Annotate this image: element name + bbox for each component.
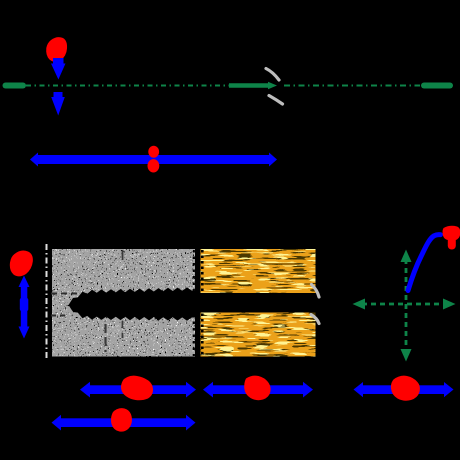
arrow: blue vertical double arrow (craze thickness) [19, 276, 30, 339]
label lc (red blob) [244, 376, 270, 401]
node C: green thick right segment [421, 83, 453, 89]
plot axis: green dashed horizontal, double-headed [362, 303, 446, 306]
label sigma(delta) (red blob at top of curve) [443, 226, 460, 250]
bulk polymer upper block (orange streaked) [201, 249, 316, 293]
break symbol lower crescent [269, 96, 283, 105]
texture: black dotted column at orange left edges [201, 250, 204, 292]
node A: thick left segment of far-field line [3, 83, 27, 89]
label h (red blob mid-left) [10, 250, 33, 276]
label a (red blob) [111, 408, 132, 432]
arrowhead up [401, 250, 412, 263]
texture: dark dotted column at gray right edge [193, 250, 195, 356]
arrow: long blue horizontal double arrow under line [30, 153, 277, 167]
arrow: blue double arrow bottom row (craze length a) [52, 415, 196, 431]
wire: dark dashed crack-plane marks left of tip [51, 293, 79, 295]
arrow: blue down arrow above line [51, 58, 66, 80]
label delta-c (red blob) [391, 376, 420, 401]
arrowhead down [401, 349, 412, 362]
label delta (red 8-shaped blob on blue arrow) [148, 146, 159, 158]
node B: green bold arrow before break symbol [229, 82, 277, 89]
arrow: blue double arrow under plot (row1 C) [354, 382, 454, 397]
break symbol lower-right crescent [311, 315, 319, 324]
break symbol upper crescent [266, 69, 279, 81]
texture streak 3 [122, 250, 124, 260]
arrowhead left [353, 299, 366, 310]
arrow: blue double arrow under craze block (row1 A) [80, 382, 196, 398]
texture streak 1 [104, 324, 106, 352]
label sigma-infinity (red blob top-left) [46, 37, 67, 62]
wire: green dash-dot crack-plane line (right half) [284, 85, 420, 87]
texture streak 2 [122, 321, 124, 338]
arrow: blue down arrow below line [51, 92, 65, 116]
craze block (gray speckled) [52, 249, 195, 357]
wire: white dash-dot symmetry line at left of craze block [46, 244, 48, 360]
wire: green dash-dot crack-plane line (left half) [26, 85, 229, 87]
break symbol upper-right crescent [312, 285, 320, 298]
cohesive law curve (blue) [408, 235, 441, 291]
plot axis: green dashed vertical, double-headed [405, 259, 408, 352]
bulk polymer lower block (orange streaked) [201, 313, 316, 357]
crack wedge (black, jagged fibril edges) [69, 287, 196, 320]
arrow: blue double arrow under bulk blocks (row1 B) [203, 382, 313, 398]
arrowhead right [443, 299, 456, 310]
label 2h (red blob) [121, 376, 153, 401]
